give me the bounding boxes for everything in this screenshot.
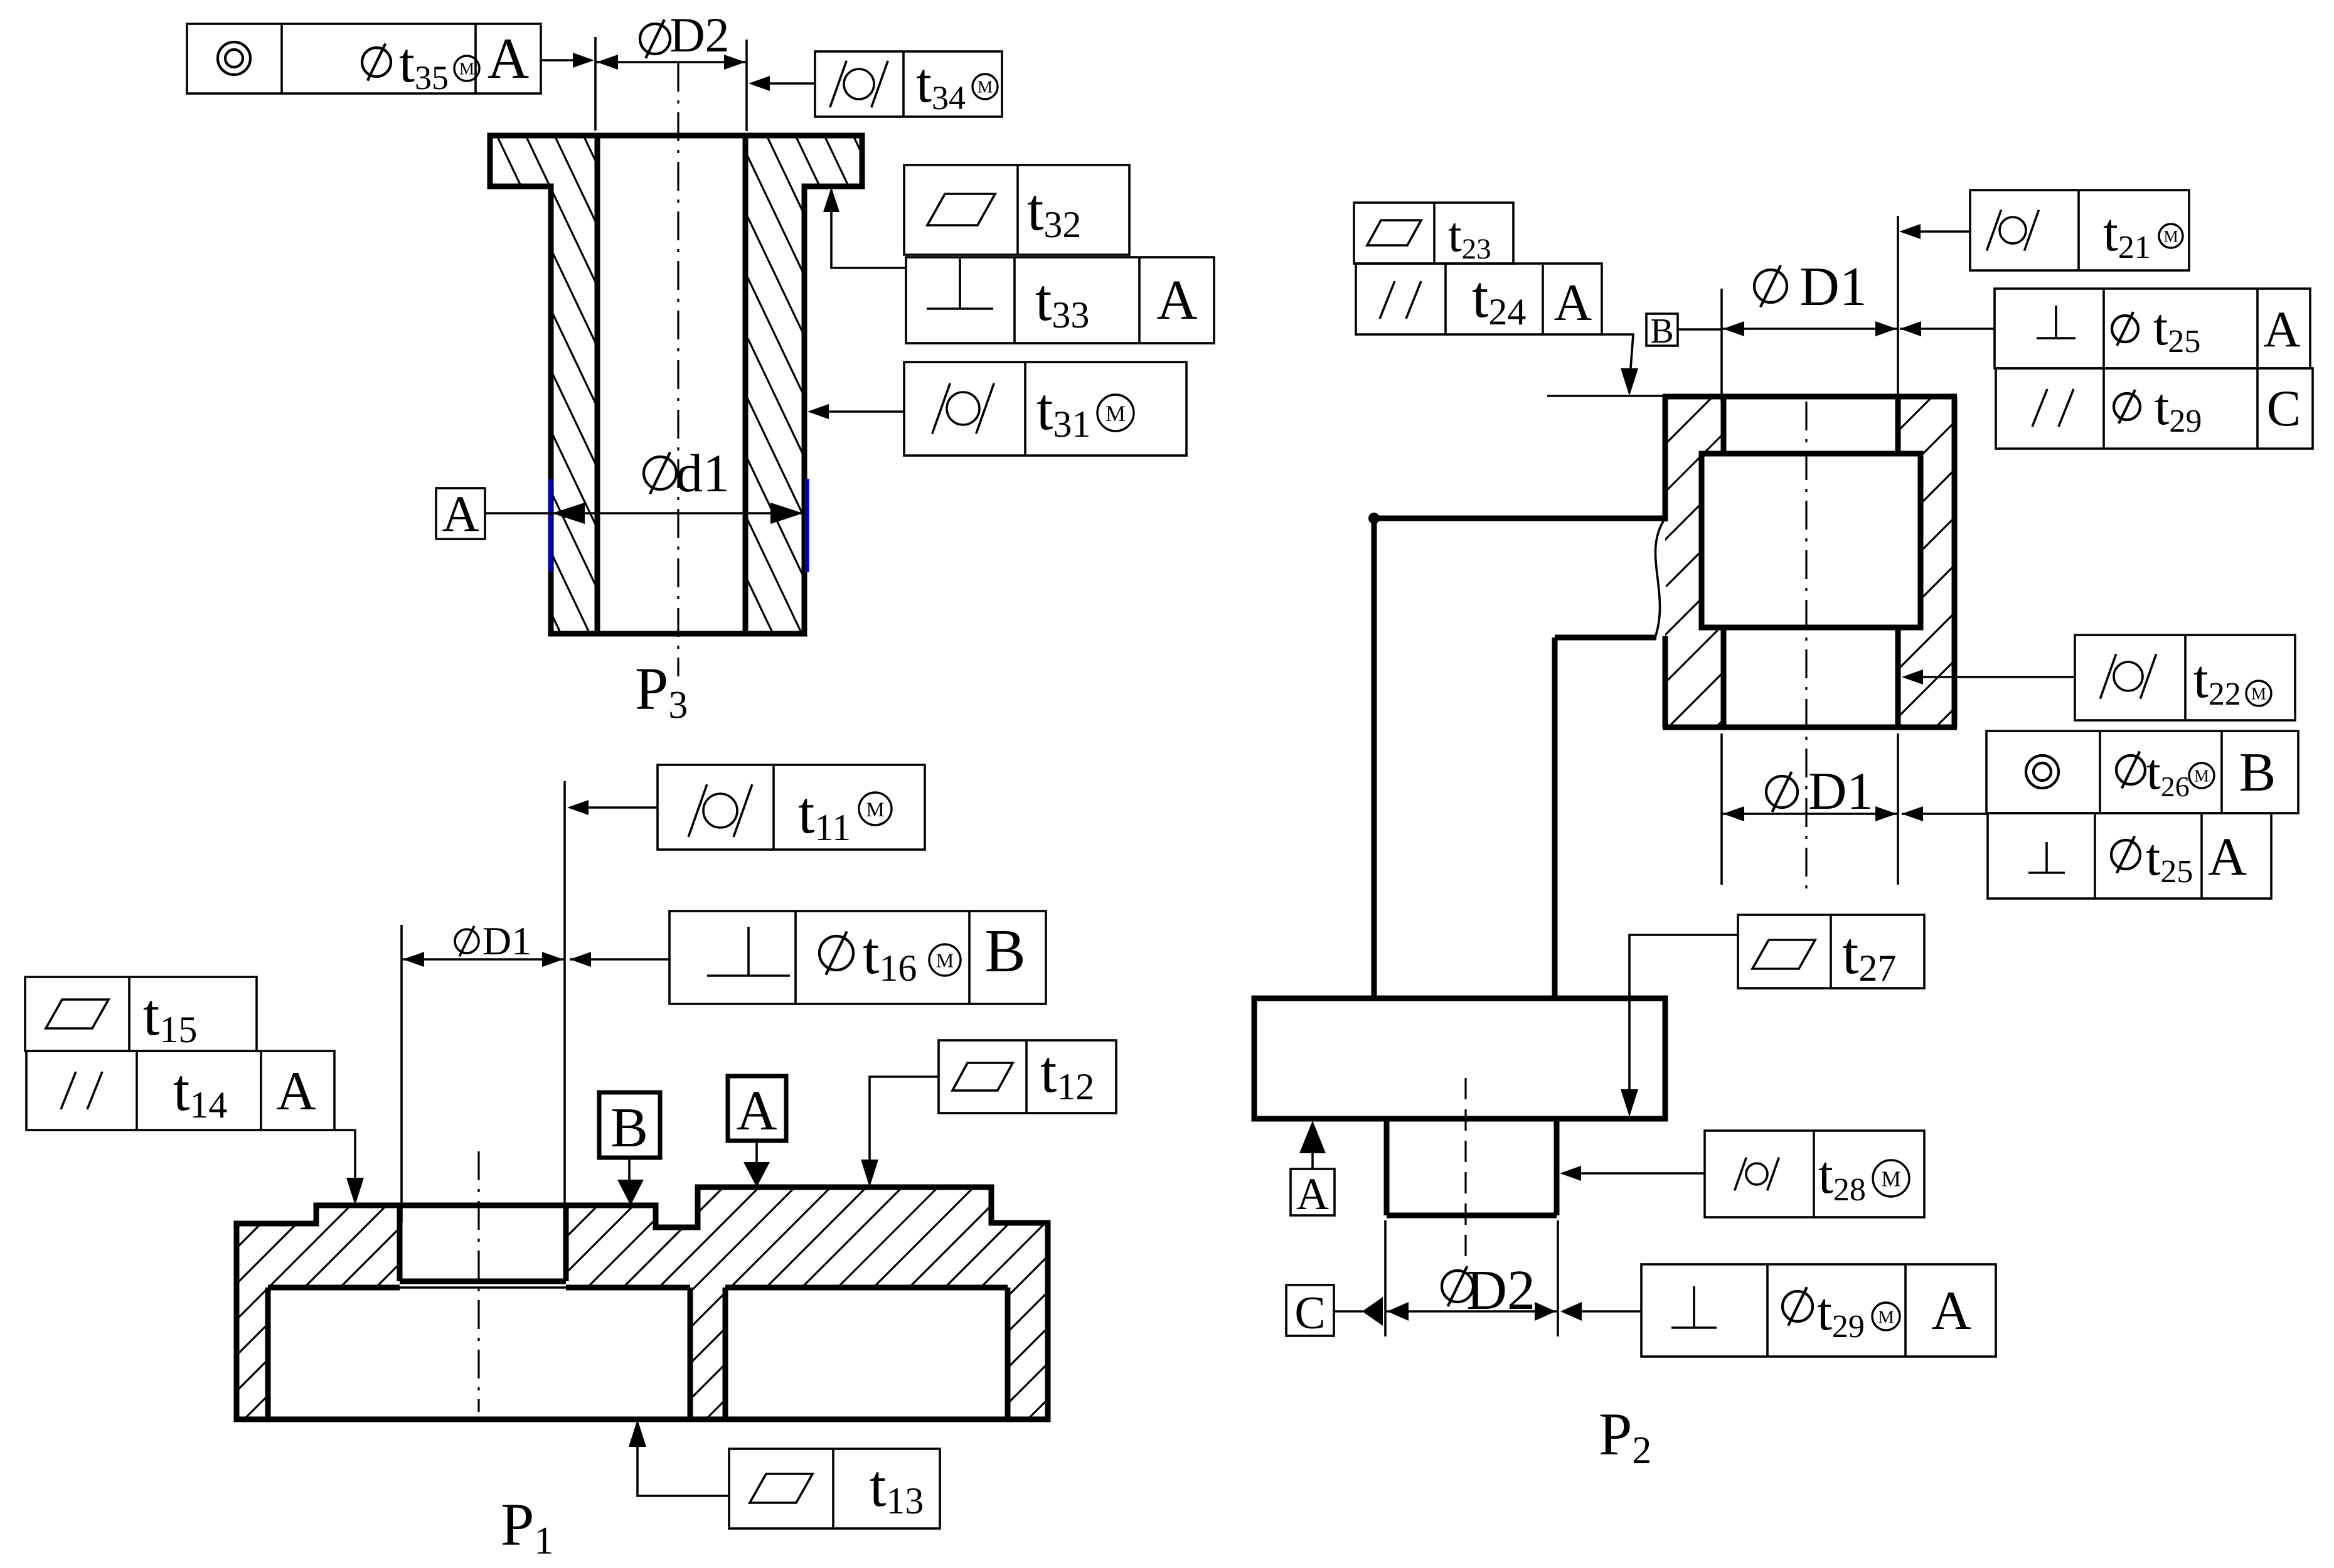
datum box B of P2	[1646, 314, 1678, 346]
frame t25 (perpendicularity dia t25 A)	[1995, 289, 2310, 368]
datum box C of P2	[1286, 1285, 1334, 1336]
leader from frame t24 to part top face	[1602, 334, 1633, 376]
frame t34 (cylindricity, t34 M)	[815, 51, 1002, 117]
leader from frame t13 to bottom surface	[637, 1444, 729, 1496]
part P2 boss centerline dashed	[1464, 1078, 1466, 1258]
part P1 counterbore bottom	[400, 1279, 566, 1284]
svg-text:C: C	[2267, 380, 2301, 437]
frame t25b (perpendicularity dia t25 A)	[1988, 813, 2271, 899]
leader from frame t34 to right extension line	[769, 82, 815, 85]
part P1 counterbore right wall	[563, 1205, 569, 1281]
frame t32 (flatness t32)	[904, 165, 1129, 255]
leader from frame t12 to top surface	[870, 1077, 939, 1162]
part P1 cavity top right	[725, 1285, 1008, 1291]
svg-text:B: B	[610, 1097, 648, 1159]
dimension D2 extension line left	[594, 37, 597, 131]
part P2 sleeve bore wall left	[1721, 397, 1727, 727]
part P1 hatching right region	[236, 1180, 1410, 1424]
frame t16 (perpendicularity dia t16 M, B)	[669, 911, 1046, 1004]
dimension D2 extension right	[1557, 1220, 1559, 1336]
frame t14 (parallelism t14 A)	[26, 1051, 334, 1130]
part P2 sleeve centerline	[1805, 402, 1807, 891]
dimension D1 lower text	[1766, 776, 1798, 808]
svg-text:D2: D2	[669, 8, 729, 62]
leader from frame t29 to extension line	[1567, 1310, 1641, 1313]
part P1 outline (stepped plate section)	[237, 1187, 1048, 1419]
dimension d1 text	[644, 457, 676, 489]
datum A of P2 (triangle and box)	[1299, 1121, 1326, 1153]
leader from datum C to dimension D2	[1334, 1310, 1363, 1313]
part P2 sleeve hatching left band	[1185, 389, 2150, 734]
dimension D1 upper text	[1754, 270, 1787, 302]
part P3 datum target line blue right	[805, 479, 809, 572]
svg-text:A: A	[442, 485, 479, 542]
datum B of P1 (box and triangle)	[599, 1092, 660, 1158]
svg-text:M: M	[2194, 767, 2209, 786]
part P2 top face thin line	[1547, 395, 1665, 397]
dimension D2 text	[640, 24, 670, 54]
part P2 sleeve outer wall left upper	[1663, 397, 1668, 521]
frame t29 (perpendicularity dia t29 M, A)	[1641, 1264, 1996, 1357]
leader from frame t16 to extension line	[570, 958, 669, 961]
part P3 centerline	[677, 63, 679, 676]
dimension D2 extension line right	[745, 40, 748, 131]
frame t11 (cylindricity t11 M)	[658, 765, 925, 850]
part P2 boss left edge	[1384, 1119, 1390, 1215]
frame t33 (perpendicularity t33 A)	[906, 257, 1214, 343]
svg-text:A: A	[2263, 301, 2300, 358]
svg-text:M: M	[1881, 1167, 1900, 1192]
part P2 sleeve top edge	[1663, 394, 1957, 400]
leader from frame t28 to boss edge	[1566, 1172, 1705, 1175]
svg-text:M: M	[459, 60, 474, 78]
leader from frame t14 to top surface	[334, 1130, 355, 1180]
part P2 boss bottom edge	[1387, 1213, 1557, 1219]
frame t15 (flatness t15)	[25, 977, 257, 1051]
dimension D1 extension line left (P1)	[400, 925, 403, 1222]
svg-text:A: A	[737, 1080, 777, 1142]
svg-text:D1: D1	[482, 919, 531, 963]
dimension D1 lower line with arrows	[1722, 813, 1898, 815]
leader from frame t11 to extension line	[573, 806, 658, 809]
part P2 boss right edge	[1554, 1119, 1560, 1215]
part P1 cavity top middle	[566, 1285, 690, 1291]
part P2 sleeve hatching right band	[1404, 389, 2334, 734]
part P1 hatching left region	[0, 1180, 770, 1424]
datum box A of P3	[436, 488, 485, 539]
frame t27 (flatness t27)	[1738, 915, 1924, 988]
part P1 inner cavity top line under counterbore	[400, 1286, 566, 1289]
svg-text:C: C	[1294, 1288, 1325, 1339]
part P1 counterbore left wall	[397, 1205, 403, 1281]
leader from frame t35 to dimension D2	[541, 59, 575, 61]
leader from frames t26/t25 to extension line	[1902, 813, 1988, 815]
frame t24 (parallelism t24 A)	[1356, 264, 1602, 334]
part P2 sleeve bottom edge	[1663, 725, 1957, 730]
dimension D1 upper extension right	[1897, 216, 1899, 433]
part P2 shaft left edge	[1372, 518, 1377, 998]
part P1 cavity wall d	[1005, 1288, 1011, 1419]
part P2 shaft white rectangle	[1702, 454, 1921, 627]
svg-text:d1: d1	[676, 443, 730, 503]
frame t23 (flatness t23)	[1354, 203, 1513, 264]
frame t26 (concentricity dia t26 M, B)	[1986, 731, 2298, 813]
part P1 cavity wall a	[265, 1288, 271, 1419]
part P1 cavity wall c	[723, 1288, 728, 1419]
frame t12 (flatness t12)	[939, 1040, 1116, 1113]
svg-text:M: M	[1106, 401, 1126, 426]
dimension d1 line with arrows	[485, 512, 551, 515]
dimension D1 extension line right (P1)	[563, 781, 566, 1204]
frame t21 (cylindricity t21 M)	[1970, 190, 2189, 270]
part P2 sleeve break wavy line	[1655, 520, 1664, 637]
part P3 hatching right wall	[420, 136, 1177, 634]
part P2 sleeve outer wall right	[1952, 397, 1958, 727]
svg-text:A: A	[2208, 826, 2247, 887]
leader from frames t32/t33 to flange step	[831, 193, 906, 268]
leader from frame t22 to bore wall	[1908, 676, 2075, 678]
frame t35 (concentricity, dia t35 M, A)	[187, 24, 541, 93]
part P3 datum target line blue left	[548, 479, 553, 572]
part P1 centerline	[477, 1151, 479, 1412]
svg-text:B: B	[1650, 312, 1673, 351]
svg-text:A: A	[1931, 1281, 1971, 1341]
part P1 cavity top left	[268, 1285, 400, 1291]
svg-text:M: M	[2251, 685, 2266, 703]
frame t22 (cylindricity t22 M)	[2075, 635, 2295, 720]
part P2 flange outline	[1254, 998, 1665, 1119]
part P3 hatching left wall	[151, 136, 907, 634]
frame t31 (cylindricity t31 M)	[904, 362, 1186, 456]
dimension D1 upper extension left	[1720, 289, 1723, 402]
svg-text:D1: D1	[1799, 257, 1867, 317]
part P3 bore wall left	[595, 136, 600, 634]
leader from frame t27 to flange bottom	[1629, 935, 1738, 1093]
part P3 outline (flanged bushing section)	[490, 136, 862, 634]
svg-text:A: A	[276, 1061, 316, 1122]
svg-text:D2: D2	[1466, 1259, 1535, 1321]
svg-text:M: M	[1878, 1307, 1894, 1327]
svg-text:M: M	[2163, 227, 2178, 245]
frame t29c (parallelism dia t29 C)	[1996, 368, 2313, 449]
svg-text:M: M	[978, 78, 993, 97]
part P2 sleeve bore wall right	[1895, 397, 1901, 727]
leader from datum B to dimension D1	[1678, 328, 1722, 331]
dimension D2 line with arrows	[1385, 1310, 1558, 1313]
part P2 shaft break-out white region	[1631, 522, 1671, 635]
dimension D1 lower extension left	[1720, 733, 1723, 885]
svg-text:A: A	[1157, 269, 1198, 331]
frame t13 (flatness t13)	[729, 1449, 940, 1528]
dimension D2 text (P2)	[1442, 1271, 1473, 1302]
leader from frame t31 to part wall	[814, 410, 904, 413]
svg-text:A: A	[488, 26, 529, 90]
part P2 shaft upper edge	[1374, 516, 1664, 521]
part P2 shaft lower edge	[1555, 635, 1656, 641]
svg-text:B: B	[2239, 742, 2276, 803]
part P2 sleeve outer wall left lower	[1663, 636, 1668, 727]
svg-text:B: B	[984, 917, 1025, 985]
svg-text:M: M	[936, 949, 954, 972]
leader from frames t25/t29 to extension line	[1900, 328, 1995, 330]
svg-text:M: M	[866, 799, 884, 821]
svg-text:A: A	[1554, 274, 1592, 332]
part P2 shaft junction dot	[1368, 513, 1380, 524]
dimension D2 extension left	[1384, 1220, 1387, 1336]
dimension D1 upper line with arrows	[1722, 328, 1898, 330]
svg-text:D1: D1	[1808, 762, 1873, 821]
part P1 cavity wall b	[688, 1288, 693, 1419]
dimension D1 lower extension right	[1897, 733, 1899, 885]
frame t28 (cylindricity t28 M)	[1705, 1131, 1924, 1217]
leader from frame t21 to extension line	[1905, 230, 1970, 233]
dimension D1 line with arrows (P1)	[402, 958, 565, 961]
part P2 shaft right edge	[1552, 637, 1558, 998]
dimension D1 text (P1)	[455, 929, 479, 953]
part P3 bore wall right	[743, 136, 749, 634]
datum A of P1 (box and triangle)	[728, 1076, 786, 1141]
svg-text:A: A	[1296, 1169, 1329, 1219]
dimension D2 line with arrows	[595, 61, 747, 63]
